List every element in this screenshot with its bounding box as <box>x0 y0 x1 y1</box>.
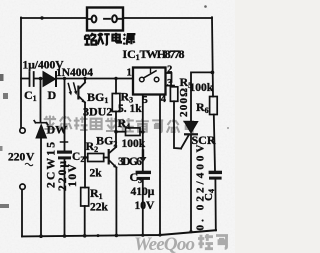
svg-text:1: 1 <box>127 68 132 79</box>
wire zener DW branch lower <box>40 138 42 236</box>
transistor BG2 base bar <box>108 149 110 165</box>
wire left rail upper <box>20 18 22 128</box>
svg-text:10V: 10V <box>135 200 156 212</box>
terminal circle right of lamp box <box>112 15 117 22</box>
wire zener DW branch upper <box>40 79 42 122</box>
svg-text:3DG6: 3DG6 <box>118 156 142 168</box>
hanzi yuan <box>123 34 135 45</box>
phototransistor BG1 base bar <box>77 86 79 100</box>
light arrow 1 into BG1 <box>68 84 71 94</box>
IC switch contact right <box>154 77 159 82</box>
svg-text:D: D <box>48 88 57 102</box>
wire top-left horizontal <box>21 17 87 19</box>
resistor R4 100k box <box>126 128 141 136</box>
node R3 junction on rail <box>114 77 117 80</box>
capacitor C2 bottom plate <box>58 156 71 159</box>
svg-text:22k: 22k <box>90 202 109 214</box>
terminal circle left of lamp box <box>92 16 97 23</box>
wire BG1 emitter down <box>84 103 86 188</box>
node BG1 junction on rail <box>83 77 86 80</box>
resistor R2 2k box <box>88 154 104 162</box>
resistor R3 5.1k box <box>112 94 120 112</box>
scan specks <box>0 5 229 208</box>
node C2 junction on rail <box>63 77 66 80</box>
bottom wire <box>22 230 216 236</box>
resistor R1 22k box <box>81 188 89 207</box>
svg-text:3DU2: 3DU2 <box>83 105 112 119</box>
svg-text:220: 220 <box>8 152 26 164</box>
bottom junction nodes <box>39 230 192 238</box>
svg-text:410μ: 410μ <box>131 186 155 198</box>
transistor BG2 collector <box>110 147 116 153</box>
svg-text:100k: 100k <box>122 138 146 150</box>
SCR cathode bar <box>184 133 198 135</box>
hanzi deng <box>98 33 110 45</box>
wire pin4 down <box>159 95 161 234</box>
resistor R5 200ohm box <box>170 87 177 102</box>
wire supply rail y78 <box>21 78 133 80</box>
wire lamp box internal stubs <box>87 18 123 20</box>
wire R3 top lead <box>115 79 117 94</box>
SCR gate diagonal <box>181 135 189 149</box>
watermark hanzi row <box>44 116 56 130</box>
terminal circle 220V bottom <box>20 184 25 189</box>
wire C2 branch upper <box>64 79 66 151</box>
svg-text:IC: IC <box>123 47 136 61</box>
zener DW cathode bar <box>34 121 48 125</box>
capacitor C1 plates <box>30 72 34 86</box>
svg-text:3: 3 <box>167 78 172 89</box>
svg-text:100k: 100k <box>190 82 214 94</box>
wire R3 bottom lead / BG2 collector riser <box>115 112 117 148</box>
svg-text:2: 2 <box>167 65 172 76</box>
IC1 TWH8778 box <box>133 68 166 95</box>
svg-text:2k: 2k <box>90 168 103 180</box>
capacitor C3 top plate <box>136 171 151 174</box>
svg-text:5. 1k: 5. 1k <box>118 103 142 115</box>
zener DW triangle <box>36 125 47 139</box>
wire R4 left lead <box>116 131 126 133</box>
label ludeng dianyuan (street lamp power) <box>85 33 136 45</box>
wire R2 left lead <box>85 157 88 159</box>
phototransistor BG1 collector stub <box>80 79 85 89</box>
node R4-pin5 <box>141 130 145 134</box>
svg-text:WeeQoo: WeeQoo <box>134 234 195 253</box>
wire R1 lower <box>84 206 86 236</box>
SCR triangle <box>184 122 198 134</box>
diode D 1N4004 <box>43 72 56 87</box>
wire SCR cathode down <box>190 135 192 231</box>
svg-text:4: 4 <box>161 94 167 105</box>
wire pin3 stub <box>166 85 175 87</box>
IC switch top stub <box>150 68 152 73</box>
wire SCR anode branch <box>191 72 212 121</box>
right rail middle <box>214 115 215 171</box>
wire pin2 stub <box>166 73 172 82</box>
hanzi dian <box>112 33 120 43</box>
svg-text:DW: DW <box>47 123 68 137</box>
capacitor C4 top plate <box>209 171 222 174</box>
capacitor C4 bottom plate <box>209 177 222 180</box>
svg-text:TWH8778: TWH8778 <box>140 47 185 61</box>
node R3-R4-BG2 <box>114 130 118 134</box>
arrow on pin5 wire above C3 <box>142 151 144 158</box>
light arrow 2 into BG1 <box>74 83 77 93</box>
wire C2 branch lower <box>64 159 66 236</box>
terminal circle 220V top <box>20 128 25 133</box>
hanzi lu <box>85 33 97 45</box>
connector box lamp supply <box>87 8 123 31</box>
svg-text:200Ω: 200Ω <box>178 88 190 117</box>
wire BG2 emitter down <box>115 168 117 235</box>
wire top-right horizontal <box>123 17 212 19</box>
node C1-D junction <box>39 77 43 81</box>
capacitor C3 bottom plate <box>137 177 150 180</box>
node R2 branch <box>83 156 86 159</box>
right rail lower <box>214 180 216 231</box>
svg-text:1N4004: 1N4004 <box>56 67 93 79</box>
capacitor C2 top plate <box>57 151 72 154</box>
svg-text:5: 5 <box>143 95 148 106</box>
svg-text:10V: 10V <box>67 163 79 187</box>
plus sign of C2 <box>61 141 68 143</box>
wire R4 right lead <box>140 131 143 133</box>
svg-text:V: V <box>26 152 35 164</box>
wire R5 down to SCR gate <box>174 101 181 148</box>
resistor R6 100k box <box>210 97 218 115</box>
wire left rail lower <box>21 190 23 236</box>
watermark weiku hanzi <box>198 234 228 249</box>
phototransistor BG1 emitter <box>80 97 86 103</box>
IC switch contact left <box>140 77 145 82</box>
node anode branch on right rail <box>211 71 215 75</box>
right rail upper <box>212 17 213 96</box>
wire C3 down <box>142 180 144 234</box>
node on top wire <box>40 16 43 19</box>
transistor BG2 emitter <box>110 161 117 168</box>
wire R2 right lead <box>104 157 108 159</box>
IC switch arm <box>144 71 156 78</box>
wire pin5 down <box>142 95 144 172</box>
